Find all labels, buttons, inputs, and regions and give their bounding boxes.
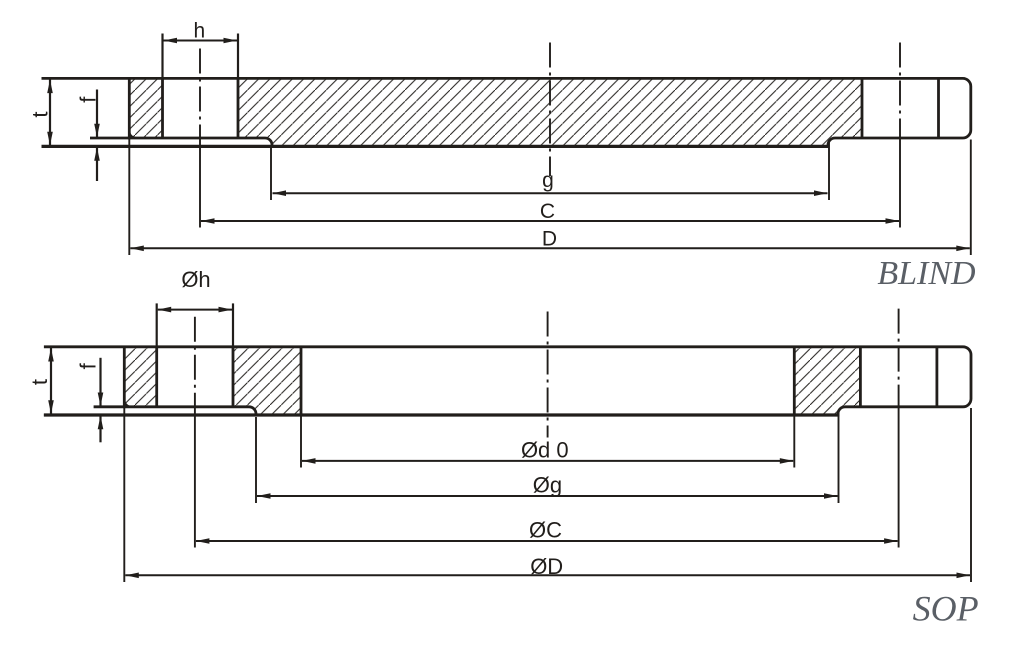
label C	[540, 200, 555, 223]
blind flange body bottom edge with extension line	[90, 138, 272, 146]
sop right bolt centerline	[898, 309, 900, 407]
dimension t line with arrows	[47, 79, 53, 145]
sop dimension f lower arrow	[98, 416, 104, 443]
label D	[542, 228, 557, 251]
svg-text:SOP: SOP	[913, 588, 979, 628]
sop flange body bottom edge with extension line	[94, 407, 256, 415]
dimension D line with arrows	[130, 246, 970, 252]
label f rotated	[76, 96, 101, 103]
svg-text:ØD: ØD	[530, 554, 563, 579]
svg-text:BLIND: BLIND	[877, 255, 976, 292]
sop flange bore edges	[301, 347, 794, 415]
blind flange top edge with extension line	[42, 78, 971, 146]
blind flange hatched section center	[238, 78, 862, 146]
sop flange hatched section left rim	[124, 347, 156, 407]
label g	[542, 169, 554, 192]
svg-text:Øh: Øh	[181, 267, 210, 292]
dimension OD line with arrows	[125, 573, 970, 579]
blind flange right bolt hole edges	[862, 78, 939, 138]
dimension f upper arrow	[94, 90, 100, 138]
label h	[193, 20, 205, 43]
blind flange left bolt hole edges	[163, 78, 239, 138]
dimension OD extension lines	[124, 407, 971, 582]
blind left bolt centerline	[199, 49, 201, 147]
sop label t rotated	[27, 379, 52, 385]
label BLIND	[877, 255, 976, 292]
label Oh	[181, 267, 210, 292]
dimension D extension lines	[129, 138, 971, 255]
dimension C extension lines	[200, 138, 900, 228]
sop main centerline	[547, 312, 549, 438]
sop label f rotated	[76, 362, 101, 369]
sop flange raised face bottom line overlay	[44, 413, 838, 416]
sop dimension f upper arrow	[98, 358, 104, 406]
svg-text:Ød 0: Ød 0	[521, 437, 569, 462]
sop dimension t line with arrows	[48, 348, 54, 414]
dimension OC line with arrows	[196, 538, 898, 544]
svg-text:t: t	[27, 379, 52, 385]
svg-text:t: t	[28, 111, 53, 117]
label OC	[529, 518, 562, 543]
svg-text:Øg: Øg	[533, 473, 562, 498]
label Od0	[521, 437, 569, 462]
svg-text:h: h	[193, 20, 205, 43]
sop left bolt centerline	[194, 317, 196, 407]
dimension g extension lines	[271, 141, 829, 200]
dimension h extension lines	[163, 34, 239, 79]
blind right bolt centerline	[899, 43, 901, 139]
label Og	[533, 473, 562, 498]
svg-text:C: C	[540, 200, 555, 223]
dimension Oh line with arrows	[158, 307, 232, 313]
dimension Od0 line with arrows	[302, 458, 793, 464]
blind flange main centerline	[549, 43, 551, 177]
blind flange left edge	[129, 78, 136, 139]
dimension OC extension lines	[195, 407, 899, 548]
dimension g line with arrows	[273, 190, 828, 196]
dimension f lower arrow	[94, 147, 100, 181]
sop flange left bolt hole edges	[157, 347, 233, 407]
sop flange hatched section right of bore	[794, 347, 860, 415]
blind flange raised face bottom line overlay	[42, 145, 829, 148]
sop flange left edge	[124, 347, 131, 408]
sop flange right bolt hole edges	[860, 347, 937, 407]
svg-text:f: f	[76, 96, 101, 103]
sop flange top edge with extension line	[44, 347, 971, 415]
svg-text:f: f	[76, 362, 101, 369]
dimension Og line with arrows	[257, 493, 838, 499]
dimension Od0 extension lines	[301, 415, 794, 468]
dimension h line with arrows	[164, 38, 238, 44]
label t rotated	[28, 111, 53, 117]
dimension Oh extension lines	[157, 303, 233, 346]
dimension C line with arrows	[201, 218, 899, 224]
blind flange hatched section left rim	[129, 78, 162, 138]
svg-text:ØC: ØC	[529, 518, 562, 543]
dimension Og extension lines	[256, 412, 839, 503]
sop flange hatched section left of bore	[233, 347, 301, 415]
svg-text:D: D	[542, 228, 557, 251]
label OD	[530, 554, 563, 579]
svg-text:g: g	[542, 169, 554, 192]
label SOP	[913, 588, 979, 628]
